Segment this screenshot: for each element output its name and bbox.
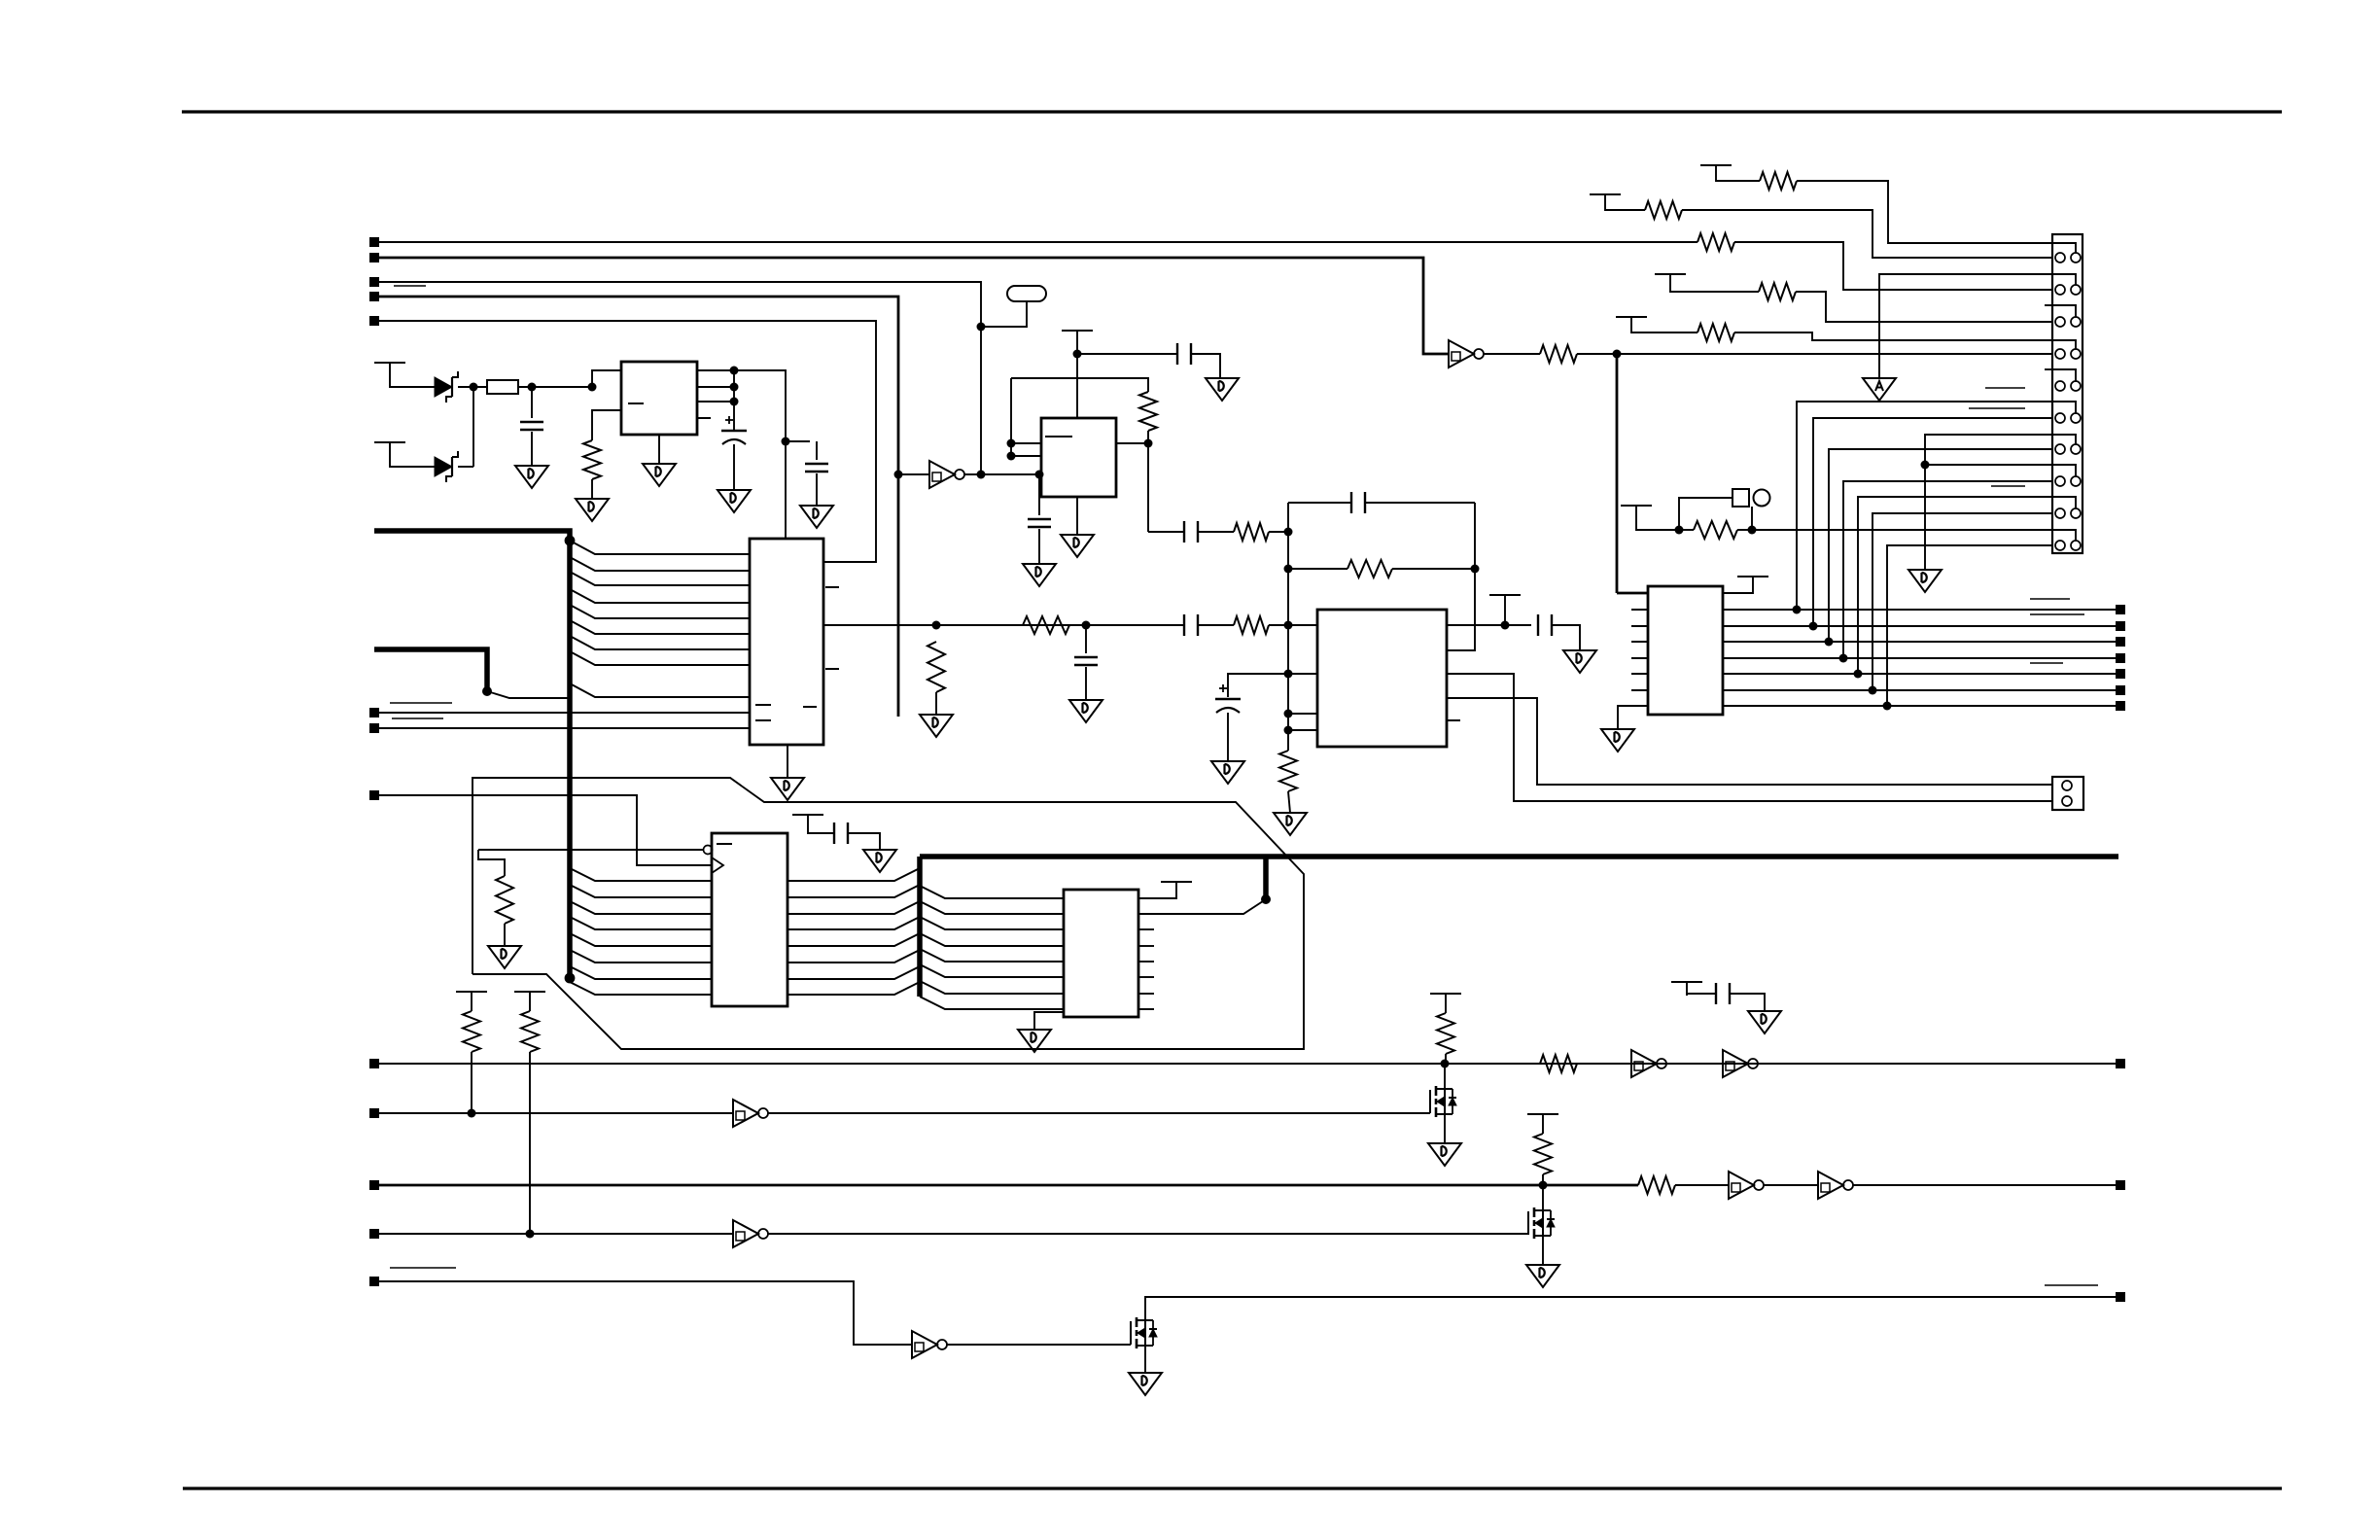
wire R to gnd bbox=[1288, 791, 1290, 813]
U4 right stub bbox=[1447, 719, 1460, 721]
wire bus rip U7 pin6 bbox=[570, 950, 712, 962]
power tap rowD bbox=[1655, 274, 1686, 288]
wire U1 out pin2 bbox=[697, 386, 734, 388]
power tap R-pu2 bbox=[514, 992, 545, 1005]
wire D1 to F1 bbox=[458, 386, 487, 388]
junction R-pu1/C2 bbox=[468, 1109, 476, 1118]
wire Q3 source gnd bbox=[1144, 1346, 1146, 1373]
wire C4 gnd bbox=[1085, 667, 1087, 700]
connector J1 pin circles row2 bbox=[2055, 285, 2065, 295]
wire to C6 bbox=[1038, 474, 1040, 515]
ground J1 bbox=[1908, 570, 1942, 592]
bus entry square C2 bbox=[369, 1108, 379, 1118]
wire U8 gnd pin bbox=[1034, 1012, 1064, 1030]
wire Y1 stem bbox=[981, 301, 1027, 327]
ground C6 bbox=[1023, 564, 1056, 586]
wire row547 a bbox=[1148, 531, 1184, 533]
stub C3 bbox=[816, 441, 818, 460]
connector J1 pin circles row5 bbox=[2055, 381, 2065, 391]
stub U4 pin2 bbox=[1288, 673, 1317, 675]
transistor Q3 bbox=[1131, 1317, 1157, 1348]
resistor R-pu1 bbox=[463, 1011, 480, 1052]
power tap U8 VCC bbox=[1161, 882, 1192, 895]
junction U3 pin2 bbox=[1007, 452, 1016, 461]
wire bus rip U8 pin3 bbox=[920, 917, 1064, 929]
ground U1 bbox=[643, 464, 676, 486]
wire U10A out to Q3 gate bbox=[947, 1344, 1131, 1346]
stub U6 left pin4 bbox=[1631, 641, 1648, 643]
wire J1 internal row 495 bbox=[2052, 465, 2076, 476]
wire to C7 bbox=[1077, 353, 1177, 355]
ground U6 bbox=[1601, 729, 1634, 752]
bus exit square D2 bbox=[2116, 621, 2125, 631]
junction U1 out b bbox=[730, 383, 739, 392]
wire J1 internal row 561 bbox=[2052, 530, 2076, 541]
junction U6 out1 tap bbox=[1793, 606, 1802, 614]
stub U6 left pin5 bbox=[1631, 657, 1648, 659]
wire C6 gnd bbox=[1038, 529, 1040, 564]
ground C10 bbox=[1563, 650, 1596, 673]
junction U6 out7 tap bbox=[1883, 702, 1892, 711]
wire C1 to ground bbox=[531, 432, 533, 466]
ground R-pd1 bbox=[920, 715, 953, 737]
wire bus rip U8 pin5 bbox=[920, 949, 1064, 962]
capacitor C6 bbox=[1028, 519, 1051, 527]
schottky diode D1 bbox=[435, 371, 458, 402]
top border rule bbox=[182, 110, 2282, 113]
U2 right stub a bbox=[825, 586, 839, 588]
wire R-pull tap bbox=[478, 850, 505, 876]
ground C12 bbox=[1748, 1011, 1781, 1033]
wire J1 r8R bbox=[1925, 464, 2052, 466]
capacitor C11 bbox=[834, 822, 848, 844]
junction D1/D2 node bbox=[470, 383, 478, 392]
wire to C4 bbox=[1085, 625, 1087, 653]
wire U7 out5 to bus2 bbox=[787, 933, 920, 946]
connector J1 pin circles row8 bbox=[2055, 476, 2065, 486]
ground Q1 bbox=[1428, 1143, 1461, 1166]
wire U1 out pin3 bbox=[697, 401, 734, 402]
resistor R-C1 bbox=[1540, 1055, 1577, 1072]
wire R-pu1 down bbox=[471, 1052, 472, 1113]
ground C4 bbox=[1069, 700, 1102, 722]
resistor R-rowJ bbox=[1694, 521, 1737, 539]
bus entry square A5 bbox=[369, 316, 379, 326]
wire J1 internal row 462 bbox=[2052, 435, 2076, 444]
ground C2 bbox=[717, 490, 751, 512]
wire bus rip U7 pin7 bbox=[570, 966, 712, 979]
wire jumper left leg bbox=[1679, 498, 1732, 530]
wire C2 row b to Q1 gate bbox=[768, 1112, 1430, 1114]
inverter U9E bbox=[1818, 1172, 1853, 1199]
wire rowE bbox=[1631, 331, 1697, 332]
junction U1 input node bbox=[588, 383, 597, 392]
wire R-pu2 down bbox=[529, 1052, 531, 1234]
ground U2 bbox=[771, 778, 804, 800]
wire C9 gnd bbox=[1227, 713, 1229, 761]
ground U3 bbox=[1061, 535, 1094, 557]
resistor R-U4 bottom bbox=[1279, 751, 1297, 791]
wire U7 gate pin row bbox=[478, 849, 704, 851]
overline label C5 bbox=[390, 1267, 456, 1269]
wire rowE to J1 r4R bbox=[1734, 332, 2052, 340]
schottky diode D2 bbox=[435, 451, 458, 482]
wire pwr to node bbox=[1504, 609, 1506, 625]
bus exit square D4 bbox=[2116, 653, 2125, 663]
ground U8 bbox=[1018, 1030, 1051, 1052]
connector J1 pin circles row6 bbox=[2055, 413, 2065, 423]
wire b bbox=[1737, 529, 1752, 531]
junction fb left bbox=[1284, 565, 1293, 574]
wire bus rip U8 pin1 bbox=[920, 886, 1064, 898]
junction A4 net at inverter bbox=[894, 471, 903, 479]
resistor R-series2 bbox=[1234, 616, 1269, 634]
regulator U1 bbox=[621, 362, 697, 435]
resistor R-fb U3 bbox=[1139, 392, 1157, 431]
ground U1 adj bbox=[576, 499, 609, 521]
wire rowD to J1 r3L bbox=[1796, 292, 2052, 322]
wire U1 out pin1 bbox=[697, 369, 734, 371]
bus exit square D6 bbox=[2116, 685, 2125, 695]
wire C12 gnd bbox=[1730, 994, 1765, 1011]
stub U8 right pin3 bbox=[1138, 961, 1154, 962]
wire VIN2 to D2 bbox=[390, 456, 435, 467]
stub U6 left pin2 bbox=[1631, 609, 1648, 611]
wire U4 left rail bbox=[1287, 503, 1289, 730]
resistor R-rowD bbox=[1759, 283, 1796, 300]
junction U1 out c bbox=[730, 398, 739, 406]
U2 pin mark c bbox=[803, 706, 817, 708]
wire U6 out5 to square bbox=[1723, 673, 2116, 675]
wire C5 row to inverter bbox=[379, 1281, 912, 1345]
wire U6 out2 riser to J1 bbox=[1813, 418, 2052, 626]
resistor R-C3 bbox=[1638, 1176, 1675, 1194]
wire U6 out7 riser to J1 bbox=[1887, 545, 2052, 706]
capacitor C3 bbox=[805, 464, 828, 472]
power tap VIN1 bbox=[374, 363, 405, 376]
wire U6 out3 riser to J1 bbox=[1829, 449, 2052, 642]
wire U6 out6 riser to J1 bbox=[1872, 513, 2052, 690]
U1 right stub pin bbox=[697, 417, 711, 419]
junction U4 pin row3 bbox=[1284, 710, 1293, 718]
wire to connector row4 bbox=[1577, 353, 2052, 355]
wire inverter U5A input bbox=[898, 473, 929, 475]
wire bus rip U7 pin8 bbox=[570, 982, 712, 995]
wire C3 ground bbox=[816, 473, 818, 506]
U2 pin mark b bbox=[755, 719, 771, 721]
stub bbox=[471, 1005, 472, 1011]
junction Q2 drain node bbox=[1539, 1181, 1548, 1190]
junction U6 out6 tap bbox=[1869, 686, 1877, 695]
U7 inverted pin bubble bbox=[704, 846, 713, 855]
IC U6 bbox=[1648, 586, 1723, 715]
wire bus rip U7 pin1 bbox=[570, 868, 712, 881]
wire D1-D2 cathode link bbox=[472, 387, 474, 467]
stub J1 row5 bbox=[2045, 368, 2052, 370]
junction BUS3 stub end bbox=[1261, 894, 1271, 904]
wire J1 internal row 430 bbox=[2052, 402, 2076, 413]
capacitor C12 bbox=[1716, 983, 1730, 1004]
wire rowB bbox=[1605, 208, 1645, 210]
overline label J1 row8 bbox=[1991, 485, 2025, 487]
wire U7 out8 to bus2 bbox=[787, 982, 920, 995]
overline label J1 row5 bbox=[1985, 387, 2025, 389]
wire VCC to U3 top bbox=[1076, 344, 1078, 418]
stub U8 right pin5 bbox=[1138, 993, 1154, 995]
stub J1 row3 bbox=[2045, 304, 2052, 306]
IC U8 bbox=[1064, 890, 1138, 1017]
power tap R-pu1 bbox=[456, 992, 487, 1005]
power tap rowJ bbox=[1621, 506, 1652, 519]
wire U6 out6 to square bbox=[1723, 689, 2116, 691]
wire fb res a bbox=[1288, 568, 1347, 570]
wire U7 out2 to bus2 bbox=[787, 885, 920, 897]
resistor R-fb2 bbox=[1347, 560, 1392, 577]
junction U6 out3 tap bbox=[1825, 638, 1834, 647]
wire U3 gnd pin bbox=[1076, 497, 1078, 535]
wire bus rip U2 pin1 bbox=[570, 541, 750, 554]
wire F1 to U1 bbox=[518, 386, 592, 388]
wire into U1 pin1 bbox=[592, 370, 621, 387]
wire A3 net to oscillator node bbox=[379, 282, 981, 474]
capacitor C1 bbox=[520, 422, 543, 430]
junction U4 vcc bbox=[1501, 621, 1510, 630]
ground C9 bbox=[1211, 761, 1244, 784]
wire U1 adj pin bbox=[592, 410, 621, 440]
wire U7 out4 to bus2 bbox=[787, 917, 920, 929]
wire bus rip U7 pin5 bbox=[570, 933, 712, 946]
wire rowA bbox=[1716, 179, 1760, 181]
wire C3 row (thick) bbox=[379, 1184, 1638, 1187]
bus exit square D3 bbox=[2116, 637, 2125, 647]
junction R-pu2/C4 bbox=[526, 1230, 535, 1239]
resistor R-row547 bbox=[1234, 523, 1269, 541]
U7 clock pin wedge bbox=[712, 857, 723, 873]
bus entry square A2 bbox=[369, 253, 379, 262]
wire fb top a bbox=[1288, 502, 1351, 504]
wire bus rip U7 pin4 bbox=[570, 917, 712, 929]
wire U6 out3 to square bbox=[1723, 641, 2116, 643]
wire bus rip U2 pin6 bbox=[570, 620, 750, 634]
wire U9D-U9E bbox=[1764, 1184, 1818, 1186]
resistor R-A2 bbox=[1540, 345, 1577, 363]
wire U2 output row bbox=[823, 624, 1184, 626]
wire to C1 bbox=[531, 387, 533, 418]
bus entry square C4 bbox=[369, 1229, 379, 1239]
wire U3 out down bbox=[1147, 443, 1149, 532]
wire J1 internal row 397 bbox=[2052, 369, 2076, 381]
wire J1 internal row 364 bbox=[2052, 340, 2076, 349]
junction U4 pin row2 bbox=[1284, 670, 1293, 679]
bus BUS3 stub bbox=[1263, 857, 1269, 899]
stub U6 left pin7 bbox=[1631, 689, 1648, 691]
wire bus rip U8 pin8 bbox=[920, 997, 1064, 1009]
stub U3 pin2 bbox=[1011, 455, 1041, 457]
wire Q1 drain bbox=[1444, 1064, 1446, 1089]
U3 pin mark bbox=[1045, 436, 1072, 437]
wire U9A-U9B bbox=[1666, 1063, 1723, 1065]
wire B2 to U2 bbox=[379, 727, 750, 729]
wire bus rip U2 pin8 bbox=[570, 651, 750, 665]
wire C10 gnd bbox=[1552, 625, 1580, 650]
power tap aux1 bbox=[1671, 982, 1702, 996]
resistor R-pull U7 bbox=[496, 876, 513, 924]
inverter U9D bbox=[1729, 1172, 1764, 1199]
wire C4 row a bbox=[379, 1233, 733, 1235]
wire to R-fb bbox=[1142, 378, 1148, 392]
inverter U9C bbox=[733, 1100, 768, 1127]
stub U3 pin1 bbox=[1011, 442, 1041, 444]
wire U3 left pin rail bbox=[1010, 378, 1012, 456]
junction fb right bbox=[1471, 565, 1480, 574]
resistor R-rowB bbox=[1645, 201, 1682, 219]
ground R-U4 bbox=[1274, 813, 1307, 835]
IC U7 bbox=[712, 833, 787, 1006]
wire row547 c bbox=[1269, 531, 1288, 533]
wire J1 r2R to A-gnd bbox=[1879, 274, 2052, 378]
ground C1 bbox=[515, 466, 548, 488]
ground C3 bbox=[800, 506, 833, 528]
wire to C3 bbox=[786, 440, 810, 442]
connector J2 bbox=[2052, 777, 2083, 810]
junction C-tap bbox=[1082, 621, 1091, 630]
overline label B2 bbox=[392, 717, 443, 719]
overline label D5 bbox=[2030, 662, 2063, 664]
bus BUS1 thick L bbox=[374, 531, 570, 982]
stub U8 right pin1 bbox=[1138, 928, 1154, 930]
capacitor C8 bbox=[1184, 521, 1198, 542]
stub U4 pin4 bbox=[1288, 729, 1317, 731]
inverter U9A bbox=[1631, 1050, 1666, 1077]
inverter U10A bbox=[912, 1331, 947, 1358]
transistor Q1 bbox=[1430, 1086, 1456, 1117]
wire D2 cathode bbox=[458, 466, 473, 468]
wire bus rip U2 pin3 bbox=[570, 572, 750, 585]
wire C2 to ground bbox=[733, 444, 735, 490]
wire J1 internal row 528 bbox=[2052, 497, 2076, 508]
overline label D2 bbox=[2030, 613, 2084, 615]
capacitor C-fb bbox=[1351, 492, 1365, 513]
junction IC5 enable tap bbox=[1613, 350, 1622, 359]
junction osc out bbox=[977, 471, 986, 479]
wire VCC to U2 top bbox=[734, 370, 786, 539]
inverter U5B bbox=[1449, 340, 1484, 367]
wire U7 out7 to bus2 bbox=[787, 966, 920, 979]
wire R-pull gnd bbox=[504, 924, 506, 946]
bottom border rule bbox=[183, 1487, 2282, 1489]
connector J1 pin circles row4 bbox=[2055, 349, 2065, 359]
wire bus rip U8 pin2 bbox=[920, 901, 1064, 914]
bus entry square C3 bbox=[369, 1180, 379, 1190]
junction C3 tap bbox=[782, 437, 790, 446]
junction Y1/A3 bbox=[977, 323, 986, 332]
wire A4 net (thick) to inverter input bbox=[379, 297, 898, 717]
bus exit square E3 bbox=[2116, 1292, 2125, 1302]
wire rowD bbox=[1670, 288, 1759, 292]
wire BUS2 merge bbox=[487, 691, 570, 698]
U1 pin mark bbox=[628, 402, 644, 404]
wire rowB to J1 r1L bbox=[1682, 210, 2052, 258]
IC U2 bbox=[750, 539, 823, 745]
ground C7 bbox=[1206, 378, 1239, 401]
power tap Q1 pullup bbox=[1430, 994, 1461, 1007]
stub U8 right pin2 bbox=[1138, 945, 1154, 947]
bus entry square B2 bbox=[369, 723, 379, 733]
connector J2 pin1 bbox=[2062, 781, 2072, 790]
bus exit square E2 bbox=[2116, 1180, 2125, 1190]
wire U6 out4 riser to J1 bbox=[1843, 481, 2052, 658]
wire J1 r7R gnd rail bbox=[1925, 435, 2052, 570]
wire bus rip U8 pin6 bbox=[920, 964, 1064, 977]
power tap rowA bbox=[1700, 165, 1732, 179]
junction r8R tap bbox=[1921, 461, 1930, 470]
wire to C9 bbox=[1228, 674, 1288, 697]
overline label J1 row5b bbox=[1969, 407, 2025, 409]
resistor R-pu2 bbox=[521, 1011, 539, 1052]
power tap U3 VCC bbox=[1062, 331, 1093, 344]
wire to C12 bbox=[1687, 994, 1716, 996]
U7 pin mark bbox=[717, 843, 732, 845]
bus BUS3 vertical bbox=[917, 857, 923, 997]
wire VIN1 to D1 bbox=[390, 376, 435, 387]
resistor R-rowC (A1 net) bbox=[1697, 233, 1734, 251]
bus entry square C1 bbox=[369, 1059, 379, 1068]
electrolytic capacitor C2 bbox=[721, 416, 747, 444]
bus entry square A3 bbox=[369, 277, 379, 287]
wire key matrix loop bbox=[472, 778, 1304, 1049]
wire R-Q1 to node bbox=[1445, 1054, 1447, 1064]
wire fb right rail to U4 pin bbox=[1447, 503, 1475, 650]
wire to square E2 bbox=[1853, 1184, 2116, 1186]
crystal oscillator Y1 bbox=[1007, 286, 1046, 301]
fuse F1 bbox=[487, 380, 518, 394]
power tap U6 VCC bbox=[1737, 577, 1768, 590]
junction C1 tap bbox=[528, 383, 537, 392]
resistor R-rowA bbox=[1760, 172, 1797, 190]
wire Q1 source gnd bbox=[1444, 1114, 1446, 1143]
wire bus rip U7 pin3 bbox=[570, 901, 712, 914]
wire U6 gnd pin bbox=[1618, 706, 1648, 729]
stub U4 pin3 bbox=[1288, 713, 1317, 715]
wire Q2 source gnd bbox=[1542, 1236, 1544, 1265]
wire U3 output bbox=[1116, 442, 1148, 444]
junction U4 in1 bbox=[1284, 528, 1293, 537]
resistor R-U1adj bbox=[583, 440, 601, 479]
resistor R-Q1 bbox=[1437, 1013, 1454, 1054]
junction jumper R bbox=[1748, 526, 1757, 535]
wire R-Q2 to node bbox=[1542, 1174, 1544, 1185]
stub bbox=[1445, 1007, 1447, 1013]
wire U6 out7 to square bbox=[1723, 705, 2116, 707]
junction U3 clock node bbox=[1035, 471, 1044, 479]
wire bus rip U8 pin7 bbox=[920, 981, 1064, 994]
overline label A4 net bbox=[394, 285, 426, 287]
stub bbox=[1542, 1128, 1544, 1134]
IC U4 bbox=[1317, 610, 1447, 747]
stub U8 right pin6 bbox=[1138, 1008, 1154, 1010]
wire rowJ to J1 r10R bbox=[1752, 529, 2052, 531]
wire a bbox=[1679, 529, 1694, 531]
stub U6 left pin3 bbox=[1631, 625, 1648, 627]
wire C11 gnd bbox=[848, 833, 880, 850]
power tap rowE bbox=[1616, 317, 1647, 331]
wire U8 vcc pin bbox=[1138, 895, 1176, 898]
ground Q3 bbox=[1129, 1373, 1162, 1395]
bus exit square D5 bbox=[2116, 669, 2125, 679]
power tap rowB bbox=[1590, 194, 1621, 208]
wire U2 ground pin bbox=[787, 745, 788, 778]
wire U5A output bbox=[964, 473, 1039, 475]
